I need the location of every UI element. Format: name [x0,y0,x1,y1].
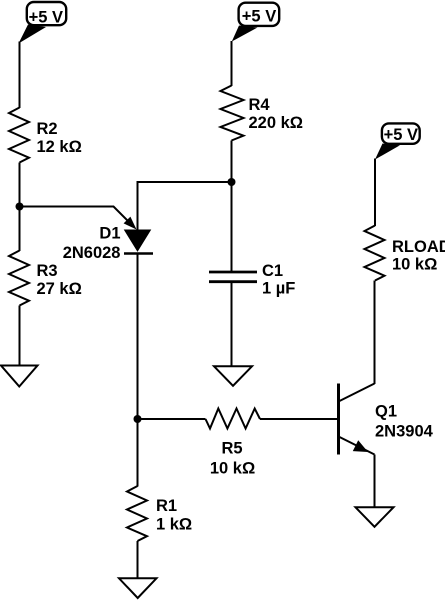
svg-text:D1: D1 [99,225,120,243]
resistor R2 [9,108,29,163]
svg-text:2N6028: 2N6028 [63,244,121,262]
label C1 value [262,262,295,298]
node B junction [228,178,236,186]
power flag +5V (right supply) [375,123,420,159]
ground (below Q1 emitter) [356,507,394,527]
wire R3 to ground [19,306,21,366]
wire node A to D1 gate [20,207,129,222]
resistor R4 [221,86,244,141]
wire R5 to node C [138,418,206,420]
label R4 value [249,96,304,132]
wire Q1 base to R5 [260,418,339,420]
svg-text:10 kΩ: 10 kΩ [392,256,437,274]
svg-text:C1: C1 [262,262,283,280]
ground (below C1) [214,366,252,386]
wire node B to C1 [231,182,233,272]
resistor R5 [206,409,261,429]
svg-text:+5 V: +5 V [242,7,276,25]
label R1 value [156,497,192,534]
svg-text:1 kΩ: 1 kΩ [156,516,192,534]
svg-text:R5: R5 [221,440,242,458]
label D1 value [63,225,121,263]
svg-text:10 kΩ: 10 kΩ [210,459,255,477]
ground (left, below R3) [1,366,38,387]
svg-text:R2: R2 [37,120,58,138]
svg-text:+5 V: +5 V [29,8,63,26]
svg-text:R4: R4 [249,96,271,114]
svg-text:R3: R3 [37,262,58,280]
svg-text:R1: R1 [156,497,177,515]
resistor R1 [127,486,147,541]
resistor R3 [9,251,29,306]
wire node C to R1 [137,419,139,487]
wire right supply to RLOAD [374,159,376,227]
svg-text:1 µF: 1 µF [262,280,295,298]
label R5 value [210,440,255,478]
svg-text:220 kΩ: 220 kΩ [249,114,304,132]
wire R4 to node B [231,141,233,183]
svg-text:Q1: Q1 [375,403,397,421]
D1 gate arrowhead [124,217,137,230]
label RLOAD value [392,238,445,274]
wire node A to R3 [19,207,21,252]
label R3 value [37,262,82,298]
svg-text:RLOAD: RLOAD [392,238,445,256]
svg-text:+5 V: +5 V [384,126,418,144]
diode D1 (2N6028) [124,231,153,254]
wire R1 to ground [137,541,139,578]
capacitor C1 [209,272,257,282]
wire D1 cathode to node C [137,254,139,420]
ground (below R1) [119,578,157,598]
transistor Q1 (2N3904 NPN) [339,384,375,455]
wire R4 node to D1 anode [138,182,232,230]
node A junction [16,203,24,211]
resistor RLOAD [365,226,385,281]
node C junction [134,415,142,423]
wire R2 to node A [19,163,21,207]
svg-text:12 kΩ: 12 kΩ [37,138,82,156]
svg-text:27 kΩ: 27 kΩ [37,280,82,298]
wire left supply to R2 [19,42,21,109]
label Q1 value [375,403,434,441]
wire C1 to ground [231,282,233,367]
svg-text:2N3904: 2N3904 [375,422,434,440]
power flag +5V (left supply) [19,2,67,44]
wire Q1 emitter to ground [374,455,376,508]
power flag +5V (middle supply) [232,3,279,42]
wire middle supply to R4 [231,41,233,86]
wire RLOAD to Q1 collector [374,281,376,385]
label R2 value [37,120,82,156]
